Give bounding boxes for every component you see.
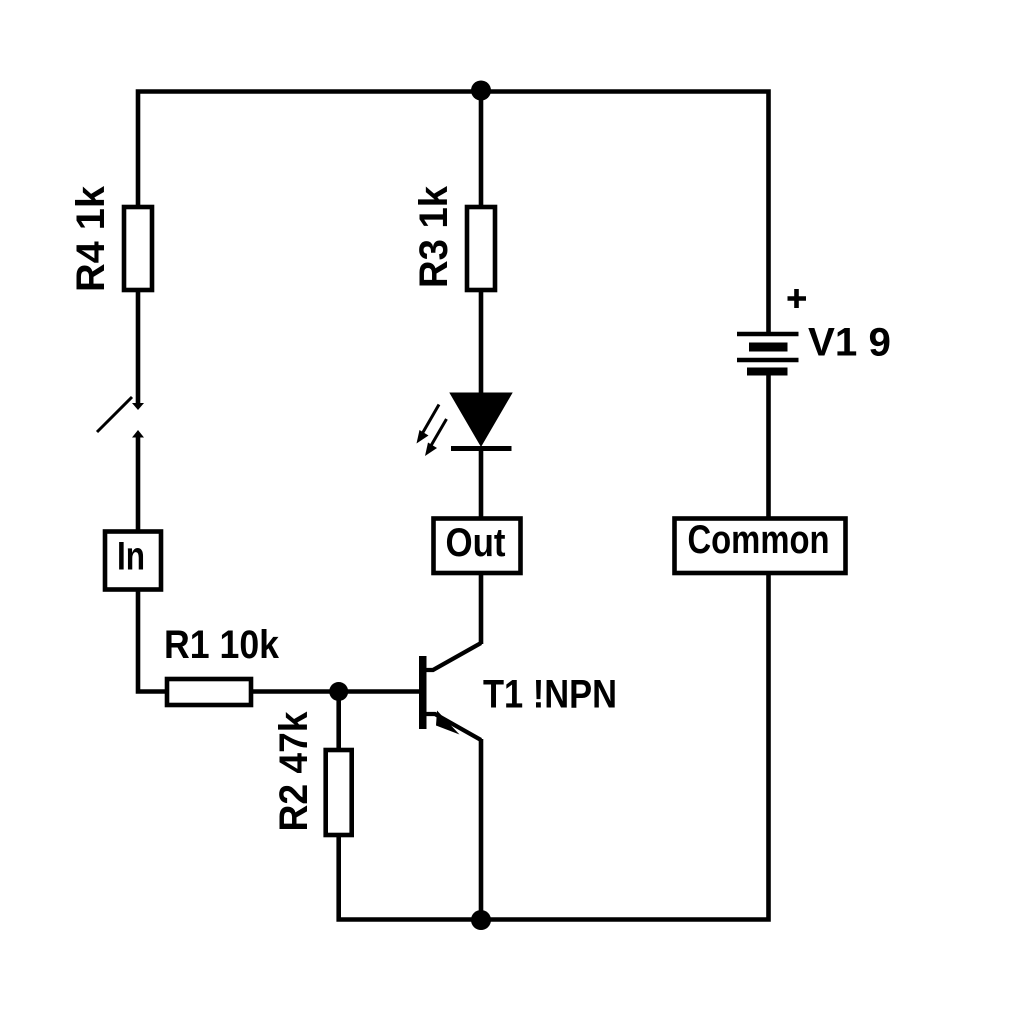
svg-text:Common: Common (688, 518, 830, 562)
svg-text:T1 !NPN: T1 !NPN (483, 673, 617, 717)
LED D1 emission arrow 1 (417, 405, 440, 444)
port Common box (675, 519, 846, 574)
battery V1 plate 3 long (737, 358, 799, 363)
switch S1 upper contact arrow (132, 403, 144, 410)
resistor R3 body (467, 207, 495, 290)
wire R1 to junction to transistor base (253, 689, 419, 694)
transistor T1 collector lead (426, 643, 481, 670)
wire LED cathode to Out box (479, 448, 484, 517)
wire bottom rail: R2 bottom to bottom horizontal to Common bottom (339, 575, 769, 920)
wire transistor emitter down to bottom rail (479, 739, 484, 920)
battery V1 plus sign (788, 289, 807, 308)
battery V1 plate 1 long (737, 332, 799, 337)
battery V1 plate 4 short thick (747, 368, 788, 376)
resistor R4 body (124, 207, 152, 290)
resistor R1 body (167, 679, 251, 705)
port In box (105, 532, 161, 590)
node junction base (R1 / R2 / T1 base) (329, 682, 348, 701)
wire junction down to R2 top (336, 692, 341, 749)
svg-text:R4 1k: R4 1k (69, 185, 113, 292)
LED D1 emission arrow 2 (425, 419, 447, 456)
svg-text:In: In (117, 535, 145, 579)
wire top junction down to R3 (479, 92, 484, 206)
svg-text:Out: Out (446, 521, 506, 565)
LED D1 triangle (anode) (451, 394, 511, 446)
wire Out box to transistor collector (479, 575, 484, 645)
transistor T1 base bar (419, 656, 427, 729)
wire top rail: left riser, top horizontal, right riser to battery (138, 92, 769, 333)
battery V1 plate 2 short thick (749, 343, 788, 352)
switch S1 lower contact arrow (132, 430, 144, 438)
transistor T1 emitter lead (426, 714, 481, 740)
svg-text:R1 10k: R1 10k (164, 623, 280, 667)
svg-text:R3 1k: R3 1k (412, 185, 456, 288)
LED D1 cathode bar (451, 446, 512, 451)
resistor R2 body (326, 750, 352, 835)
switch S1 lever (97, 397, 132, 432)
wire R3 bottom to LED anode (479, 292, 484, 394)
wire battery bottom to Common box (766, 376, 771, 518)
port Out box (434, 519, 521, 574)
svg-text:V1 9: V1 9 (808, 321, 891, 365)
wire In box to R1 (138, 591, 165, 692)
wire switch lower contact to In box (136, 437, 141, 530)
transistor T1 emitter arrow (436, 711, 460, 735)
node junction bottom (emitter / bottom rail) (471, 910, 491, 930)
svg-text:R2 47k: R2 47k (272, 711, 316, 832)
wire R4 bottom to switch upper contact (136, 292, 141, 404)
node junction top (top rail / R3) (471, 81, 491, 101)
